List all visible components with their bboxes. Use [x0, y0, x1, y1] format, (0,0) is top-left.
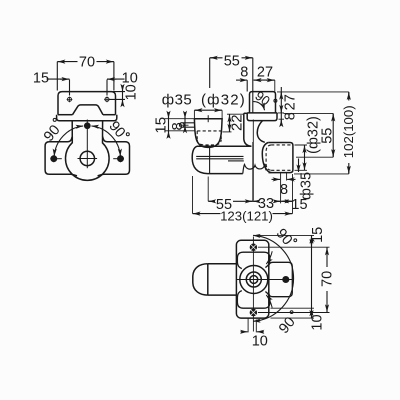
dim 10 vert ext lines: [109, 92, 125, 100]
bottom dim row: [208, 174, 292, 214]
dome top edge: [208, 263, 237, 265]
bottom scallops: [243, 164, 266, 173]
dim 123(121) line: [193, 213, 293, 215]
svg-text:10: 10: [122, 71, 138, 87]
right 102 ext top: [277, 91, 349, 93]
svg-text:8: 8: [240, 64, 248, 80]
102 bottom ext line: [294, 173, 349, 175]
svg-text:8: 8: [283, 112, 299, 120]
screw hole right: [105, 97, 109, 101]
degree circle right: [126, 133, 129, 136]
123 dim: [192, 176, 194, 214]
left dot stub: [57, 158, 62, 160]
svg-text:8: 8: [280, 182, 288, 198]
ext screw top: [258, 246, 330, 248]
svg-text:15: 15: [310, 227, 326, 243]
dome cap: [193, 264, 208, 295]
swing arc left: [54, 126, 83, 156]
flange lip top line: [247, 112, 277, 114]
screw top: [250, 244, 256, 250]
swivel 90 arc in flange: [253, 102, 264, 111]
phi35 dim over left socket: [194, 109, 222, 111]
bottom wing: [237, 291, 270, 309]
center bump: [73, 105, 104, 115]
svg-text:90: 90: [273, 226, 296, 249]
dim 10 vertical line: [122, 86, 124, 105]
ext arc top: [256, 234, 314, 236]
svg-text:55: 55: [319, 128, 335, 144]
left socket thread dashes: [197, 131, 221, 145]
svg-text:15: 15: [291, 197, 307, 213]
plate bottom edge right segment: [103, 114, 116, 116]
body: lower pipe ball end: [192, 146, 207, 173]
dim 8 27 top: [236, 79, 247, 81]
screw bottom: [250, 310, 256, 316]
pipe collar lower line: [228, 160, 244, 162]
flange plate (front): [250, 92, 276, 113]
plate center line: [252, 237, 254, 332]
wall plate (top view): [58, 92, 116, 115]
right 102 dim: [348, 92, 350, 174]
left position dot: [51, 156, 56, 161]
hub ring: [246, 272, 261, 287]
degree circle left: [53, 118, 56, 121]
dim 55 and 33 bottom lines: [208, 200, 280, 202]
pipe seam vertical: [209, 146, 211, 173]
ext wing bottom: [271, 307, 315, 309]
socket mouth center tick: [207, 115, 209, 122]
right square (rotated outlet): [269, 262, 293, 296]
right phi32 dim: [295, 145, 308, 170]
dome bottom edge: [208, 294, 237, 296]
crosshair horizontal: [78, 158, 98, 160]
svg-text:ф35: ф35: [162, 92, 193, 109]
left nub circle: [180, 123, 185, 128]
dim 70 ext lines: [57, 62, 114, 91]
swivel envelope arc: [254, 235, 294, 321]
right 8 dim ext lines: [278, 113, 285, 119]
dim 27 right ext line: [274, 80, 276, 91]
dim 15 left dim line with arrows: [168, 112, 170, 137]
dim 22 dim line with arrows: [229, 114, 231, 132]
right socket thread dashes: [266, 145, 293, 170]
right position dot: [283, 277, 289, 283]
arc end arrow top: [253, 234, 260, 237]
dim 10 top line: [107, 78, 125, 80]
dim 70 line: [57, 61, 114, 63]
neck below plate: [71, 121, 73, 144]
dim 8 left ext line: [246, 80, 248, 91]
svg-text:102(100): 102(100): [341, 105, 356, 158]
dim 22: [227, 113, 244, 115]
inner circle: [80, 151, 94, 165]
dim 15 ext: [69, 80, 71, 96]
left nub lines: [183, 123, 195, 127]
svg-text:70: 70: [79, 55, 95, 71]
top position dot: [85, 123, 90, 128]
body top short line: [244, 112, 247, 114]
left socket cup: [194, 119, 222, 148]
phi35 dim ext stubs: [194, 110, 222, 119]
plate lip: [57, 115, 117, 121]
arc end arrow bottom: [253, 320, 260, 323]
hub hole: [250, 276, 258, 284]
screw hole left: [68, 97, 72, 101]
svg-text:22: 22: [228, 114, 245, 131]
bottom 10 dim line: [241, 331, 248, 333]
right 55 lower ext line: [296, 156, 333, 158]
dim 15 lower ext line: [165, 130, 196, 132]
center line vertical: [86, 120, 88, 169]
swing arc right: [91, 126, 120, 156]
left arm rect: [45, 137, 77, 176]
projection center line: [252, 120, 254, 201]
right socket left face: [262, 143, 271, 173]
neck left edge: [244, 113, 252, 146]
svg-text:90: 90: [105, 118, 128, 141]
svg-text:10: 10: [310, 314, 326, 330]
svg-text:15: 15: [152, 117, 169, 134]
svg-text:55: 55: [224, 53, 240, 69]
left 15/8 dims: [165, 118, 195, 120]
svg-text:10: 10: [124, 84, 140, 100]
neck right edge from lip to socket: [257, 121, 265, 143]
pivot axis ext line to bottom dims: [252, 142, 254, 201]
right socket cup: [268, 143, 293, 173]
right dot stub: [113, 158, 117, 160]
dim 10 ext: [106, 80, 108, 96]
svg-text:8: 8: [169, 122, 186, 130]
bottom 10 dim exts: [248, 319, 256, 333]
svg-text:10: 10: [252, 334, 268, 350]
svg-text:27: 27: [283, 94, 299, 110]
dim 15 line: [47, 78, 70, 80]
ext plate bottom: [271, 317, 315, 319]
right 55 vertical: [284, 112, 334, 114]
plate bottom edge left segment: [58, 114, 73, 116]
right position dot: [118, 156, 123, 161]
body circle: [240, 266, 268, 294]
top wing: [237, 252, 270, 268]
dim 55 top: [210, 57, 253, 59]
flange lip: [247, 113, 277, 121]
degree circle top: [294, 239, 297, 242]
main circle: [66, 143, 110, 181]
hub horizontal line: [237, 279, 292, 281]
degree circle bottom: [290, 311, 293, 314]
small rotation arc top: [266, 251, 272, 264]
svg-text:27: 27: [257, 64, 273, 80]
right 27/8 dim: [280, 87, 282, 126]
lower pipe top edge: [197, 145, 251, 147]
pipe internal collar lines: [196, 156, 243, 158]
15 bottom arrows: [281, 200, 293, 202]
dim line 15/10 column: [311, 235, 313, 318]
right socket 8 dim: [281, 173, 287, 203]
right arm rect: [98, 137, 130, 176]
svg-text:15: 15: [33, 71, 49, 87]
svg-text:(ф32): (ф32): [201, 92, 246, 109]
svg-text:123(121): 123(121): [220, 209, 273, 224]
ext screw bottom: [258, 312, 330, 314]
dim 8 left dim line with arrows: [184, 112, 186, 127]
lower pipe bottom edge: [208, 173, 243, 175]
small rotation arc bottom: [266, 295, 272, 308]
right phi35 small arrow: [298, 159, 300, 173]
wall plate edge (side view): [236, 240, 268, 318]
dim 70 line: [326, 247, 328, 312]
dim 8 left ext to nub: [179, 124, 189, 126]
svg-text:70: 70: [319, 271, 335, 287]
degree circle flange: [274, 99, 277, 102]
dome seam: [207, 264, 209, 295]
